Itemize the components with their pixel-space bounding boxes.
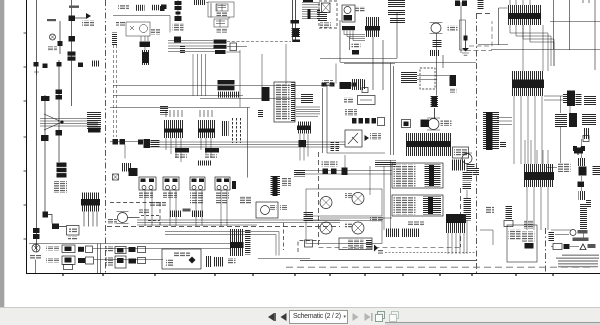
fuse wire x45 <box>44 95 46 217</box>
cab h-wire y85 <box>113 85 330 87</box>
tall hatch left of boundary <box>464 198 472 221</box>
pump controller box 1 <box>392 163 443 188</box>
hatch rows left of boundary <box>463 172 473 181</box>
sub-connector row 1 below comb <box>175 148 189 153</box>
solenoid section box A <box>306 189 382 216</box>
wiper module box 1 <box>139 177 156 190</box>
relay sub box 2 <box>362 88 368 93</box>
boundary dash-dot x545 bottom <box>545 228 547 273</box>
regulator fan wires <box>141 16 170 51</box>
cab harness comb 2 <box>198 110 215 138</box>
module 1 text <box>139 192 153 198</box>
wiper relay circle left of boundary <box>462 153 472 164</box>
cab top pin row <box>198 161 212 166</box>
fuse row 1 text <box>46 246 59 251</box>
connector G3 <box>56 130 63 136</box>
connector F2 <box>41 135 49 141</box>
bottom combs <box>385 229 400 238</box>
chain lower blob <box>174 37 181 43</box>
lamp box symbol <box>322 3 331 13</box>
bus wires horizontal <box>168 41 213 44</box>
harness dashed vertical x283 <box>283 223 285 250</box>
harness fan top right <box>302 0 320 20</box>
fuse row 1b link <box>129 247 136 252</box>
engine wires vertical <box>340 12 397 90</box>
connector stack x36 lower <box>33 228 40 233</box>
transistor cluster <box>345 130 381 147</box>
diode box <box>583 136 589 142</box>
delta symbol <box>580 244 586 250</box>
regulator bracket box <box>420 68 435 89</box>
text below C <box>486 206 494 213</box>
striped row above controller <box>375 161 396 167</box>
wire elbow to resistor <box>48 215 66 227</box>
inline connector C1 <box>135 5 145 11</box>
hatch block left <box>112 33 117 46</box>
engine verticals mid <box>345 155 391 230</box>
heater sub-box dashed line <box>110 203 160 226</box>
cab harness comb 3 <box>221 121 229 136</box>
left edge connector <box>160 106 168 115</box>
small component below <box>258 109 263 117</box>
toolbar <box>0 307 600 325</box>
safety relay box border <box>323 63 394 155</box>
bus verticals <box>36 244 101 274</box>
wires left of boundary <box>466 164 468 255</box>
last-page button (disabled) <box>362 308 376 325</box>
fuse bus connector row 2 <box>214 45 227 49</box>
connector B2 <box>69 36 76 42</box>
fuse bus connector row 1 <box>214 40 227 44</box>
relay text <box>139 210 150 215</box>
stack connector rows mid <box>218 80 235 85</box>
cab feed connector pair 2 <box>138 140 143 145</box>
sub-connector text <box>175 155 187 159</box>
boundary dash-dot line cab-left <box>105 0 107 273</box>
frame border left <box>26 0 28 274</box>
connector F3 <box>43 212 49 218</box>
module 3 text <box>190 193 204 199</box>
descending wires right <box>240 44 286 107</box>
comb side box <box>453 147 469 158</box>
blower relay cluster <box>121 163 132 172</box>
alt text <box>578 230 588 234</box>
cab harness comb 1 <box>164 110 183 138</box>
wire x59 <box>58 60 60 162</box>
text rows mid <box>239 196 251 204</box>
wiper motor box <box>256 202 278 218</box>
sender striped connector <box>429 50 440 56</box>
fuse row 2b box <box>115 256 126 268</box>
right tall hatch <box>580 204 587 230</box>
solenoid valve 1 <box>345 193 364 205</box>
sender wire <box>436 34 438 96</box>
engine mid cluster <box>402 120 411 128</box>
regulator text left <box>116 21 125 26</box>
fuse hatch row 3 <box>390 18 405 24</box>
wires above connector A <box>510 0 530 5</box>
console box <box>162 249 201 269</box>
sender text <box>183 209 191 212</box>
pump controller box 2 <box>392 195 443 216</box>
frame border bottom <box>27 273 600 275</box>
top connector pair right <box>455 1 460 7</box>
pump arrow symbol <box>374 245 378 252</box>
cab dashed wire pair <box>114 45 117 137</box>
right device chain blob 5 <box>579 191 586 200</box>
starter wire <box>434 108 436 119</box>
regulator connector <box>140 42 151 48</box>
fuse row 2 box2 <box>86 257 94 264</box>
wire label tag <box>34 69 39 75</box>
pressure sender cluster 1 <box>169 211 181 218</box>
next-page button (disabled) <box>350 308 360 325</box>
console comb bottom <box>230 229 251 256</box>
bottom text box <box>339 238 372 250</box>
harness bundle to right <box>150 142 345 147</box>
connector on horn wire <box>58 41 63 46</box>
small connector below comb <box>299 140 307 147</box>
side boxes <box>230 43 237 51</box>
vertical bar component <box>232 181 236 189</box>
fusible link text <box>173 23 184 31</box>
wires comb down <box>300 134 308 161</box>
battery text <box>82 21 94 27</box>
solenoid valve 4 <box>320 222 332 234</box>
bus connector band B <box>293 40 300 43</box>
plug symbol <box>573 146 585 155</box>
cab harness dash columns <box>233 118 241 143</box>
alt circle <box>570 230 576 236</box>
relay box R2 <box>214 19 228 33</box>
cab bulkhead comb C <box>483 112 499 150</box>
comb fan wires down <box>166 138 211 162</box>
key switch connector row <box>342 26 355 30</box>
battery terminal arrow <box>86 13 91 19</box>
left thin box <box>460 2 462 53</box>
heater switch symbol <box>113 174 119 180</box>
alternator sub-circuit hatch <box>549 232 555 242</box>
alternator wires <box>417 55 449 80</box>
notes text block <box>556 255 599 268</box>
cab v-wire x247 <box>247 108 249 178</box>
wires modules down <box>145 190 227 226</box>
engine top connectors row <box>322 83 327 87</box>
resistor feed connector <box>52 224 59 230</box>
inline connector C2 <box>151 5 160 11</box>
capacitor <box>450 75 457 86</box>
fuse bus left bits <box>180 45 185 54</box>
oil sender circle <box>431 23 441 33</box>
dashed box top right of console <box>298 241 320 253</box>
fuse row 2b box2 <box>138 258 146 264</box>
row 2 wire <box>94 259 163 261</box>
hatch block right <box>301 94 313 104</box>
enclosure bottom line <box>300 260 477 262</box>
boundary dash stub top <box>477 13 491 15</box>
controller box with pin list <box>274 82 295 122</box>
starter motor symbol <box>32 244 40 252</box>
text rows center <box>370 217 384 222</box>
radio connector <box>294 170 305 177</box>
sender hatch <box>433 40 442 48</box>
bus fuse block <box>292 28 301 38</box>
engine bottom row connector <box>340 82 352 89</box>
ground dashed wire <box>466 21 492 51</box>
hatch pair bottom of relay box <box>331 142 335 152</box>
alt wires <box>551 230 579 247</box>
cab bus lines <box>137 220 340 225</box>
regulator text right <box>151 29 160 35</box>
right h-wires <box>478 22 600 50</box>
regulator striped block <box>141 50 150 65</box>
wire elbow left of A <box>499 8 508 45</box>
bottom section top border <box>29 243 231 245</box>
fuse row 2b text <box>105 258 113 266</box>
wires below B <box>514 96 542 164</box>
connector cluster D <box>563 91 596 107</box>
lamp dashed box <box>319 1 337 28</box>
sub-connector row 2 below comb <box>205 148 219 153</box>
battery cable x71 <box>71 0 73 106</box>
fuse row 2 fuse box <box>62 256 75 265</box>
engine mid connector dark <box>421 120 430 128</box>
horn text <box>47 47 57 52</box>
feed wire label <box>118 5 129 10</box>
wiper module box 3 <box>190 177 205 190</box>
left column connector row y62 <box>34 62 39 67</box>
module lower text row <box>149 202 166 207</box>
row 1 wire <box>93 248 231 250</box>
solenoid section box B <box>306 221 382 244</box>
voltage regulator box <box>126 22 150 36</box>
right label box <box>558 164 571 173</box>
console wire right <box>258 258 310 260</box>
controller dashed enclosure bottom <box>319 247 461 249</box>
right device chain blob 1 <box>574 148 583 154</box>
fuse row 2 text <box>46 258 59 263</box>
fuse hatch row 2 <box>388 10 405 17</box>
main frame comb connector <box>81 193 100 227</box>
cab feed wires <box>110 142 138 159</box>
right edge block <box>593 166 600 175</box>
switch panel text <box>282 178 291 186</box>
fuse row 1 box2 <box>86 246 93 253</box>
relay box R1 <box>208 2 234 17</box>
engine left text <box>322 162 338 167</box>
battery branch wire <box>75 17 86 19</box>
comb C stub <box>500 141 506 148</box>
dashed corners right of blower <box>141 216 160 221</box>
console connector b <box>214 257 225 267</box>
relay wires <box>206 3 229 20</box>
small connector left <box>161 5 167 10</box>
small stack below C <box>506 205 513 220</box>
label W-09 <box>69 6 79 8</box>
right small block <box>586 200 591 208</box>
right long wires <box>554 0 596 70</box>
module 4 text <box>215 193 229 199</box>
junction node fan <box>40 114 98 130</box>
blower motor wire <box>128 217 140 219</box>
harness dashed line y226 <box>107 226 340 228</box>
copy-page icon 2 (disabled) <box>388 308 402 325</box>
sensor blobs right <box>467 164 475 172</box>
fusible link stack <box>57 163 67 167</box>
console text <box>228 258 236 264</box>
lamp text <box>320 23 331 28</box>
first-page button <box>264 308 278 325</box>
boundary dashed line mid partial <box>318 152 320 247</box>
glow resistor <box>431 95 439 108</box>
feed wire y15 <box>113 15 170 17</box>
relay sub box 1 <box>358 96 376 105</box>
dotted wire right <box>385 252 476 254</box>
relay text <box>344 98 353 104</box>
controller dashed enclosure right <box>460 188 462 247</box>
gray desk edge <box>0 0 5 307</box>
solenoid valve 2 <box>345 222 364 234</box>
switch panel connector <box>271 176 281 196</box>
fuse row 1b box2 <box>138 247 146 253</box>
bus connector band A <box>291 20 300 24</box>
comb wires down <box>448 233 464 254</box>
engine wires horizontal <box>320 59 476 64</box>
wire bus x36 <box>36 0 38 252</box>
prev-page button <box>278 308 288 325</box>
fuse bus connector row 3 <box>215 50 226 54</box>
bulkhead connector B <box>512 71 544 96</box>
page dropdown <box>289 310 348 324</box>
fuse row 1b text <box>105 246 113 253</box>
fuse row 2b link <box>129 259 137 264</box>
engine ground symbol <box>352 50 359 55</box>
blower motor <box>118 213 128 223</box>
connector B1 <box>69 16 76 22</box>
right device chain blob 2 <box>578 158 586 166</box>
wiper module box 2 <box>163 177 179 190</box>
frame tick marks left <box>24 33 27 239</box>
relay connector row y120 <box>352 118 357 124</box>
nested elbow wires <box>344 31 365 41</box>
lamp hatch <box>318 12 327 23</box>
node dot <box>60 120 63 123</box>
sensor comb top right <box>452 160 465 171</box>
cab h-wire y107 <box>110 107 250 109</box>
horn label <box>47 19 56 21</box>
bulkhead connector A <box>508 5 541 25</box>
harness bundle comb <box>87 112 101 130</box>
horn lamp <box>50 34 56 40</box>
connector stack B3 <box>68 52 76 56</box>
key harness comb <box>365 17 380 37</box>
engine left connector pairs <box>323 169 329 175</box>
sensor comb right <box>446 214 466 223</box>
connector pair rows top <box>193 0 206 5</box>
monitor comb connector <box>297 122 311 134</box>
right device chain box 3 <box>579 167 587 176</box>
console feed lines <box>165 232 279 256</box>
copy-page icon (disabled) <box>374 308 388 325</box>
connector F1 <box>41 96 50 101</box>
small striped connector <box>583 128 589 139</box>
fuse row 1 fuse box <box>62 245 75 253</box>
starter text <box>30 255 41 260</box>
wiper module box 4 <box>215 177 230 190</box>
wire-number label row above bottom border <box>286 263 596 267</box>
wires below F <box>527 187 548 230</box>
fuse row 1 link <box>78 247 84 252</box>
cab h-wire y95 <box>113 96 304 99</box>
module 2 text <box>163 192 177 198</box>
alternator hatch <box>401 71 417 84</box>
connector G1 <box>56 90 63 95</box>
fuel sender box <box>507 225 537 262</box>
pressure sender cluster 2 <box>192 211 204 218</box>
alt cluster <box>553 244 562 250</box>
right device chain blob 4 <box>578 182 585 188</box>
wires above F <box>525 140 548 164</box>
key switch <box>342 5 365 22</box>
fuse row 2 link <box>78 258 85 263</box>
solenoid valve 3 <box>320 197 332 209</box>
wire x60 branch <box>59 21 61 54</box>
fuse hatch row 1 <box>388 0 405 8</box>
console connector a <box>205 256 212 267</box>
main bus vertical pair <box>293 0 296 42</box>
resistor box <box>67 226 80 236</box>
engine ground text <box>352 43 361 48</box>
left small box <box>480 230 493 245</box>
right mid h-wires <box>497 96 563 168</box>
right chain wires <box>561 96 584 240</box>
boundary dash-dot line engine-right <box>476 13 478 273</box>
engine h-wires <box>296 64 392 219</box>
frame ground symbol <box>462 36 469 56</box>
speaker connector <box>304 212 314 222</box>
junction block dark <box>144 139 151 148</box>
tall connector mid <box>262 87 270 101</box>
starter motor <box>428 119 439 130</box>
staircase wires A to right <box>510 25 554 71</box>
fusible link text <box>54 181 67 193</box>
engine comb connector large <box>406 133 451 156</box>
fuse row 1b box <box>115 247 126 254</box>
bulkhead comb F <box>524 164 554 187</box>
battery cable connector chain x178 <box>175 0 182 21</box>
heater text <box>107 219 117 224</box>
connector cluster E <box>555 113 596 127</box>
cab feed connector pair 1 <box>113 139 119 145</box>
descending wires <box>193 54 206 96</box>
diamond symbol <box>189 257 196 264</box>
connector stack top left <box>478 0 484 9</box>
connector G2 <box>56 95 63 100</box>
frame tick marks bottom <box>63 273 553 276</box>
fan wires right of controller <box>296 107 320 116</box>
wires between A and B <box>523 25 543 71</box>
inline connector C3 <box>160 6 165 11</box>
